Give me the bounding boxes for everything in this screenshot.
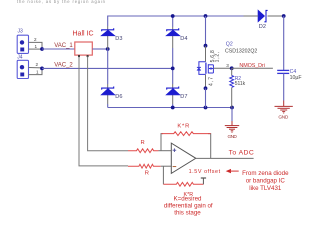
diode D3 — [101, 28, 115, 36]
svg-text:K=desired: K=desired — [173, 196, 202, 203]
svg-text:like TLV431: like TLV431 — [249, 185, 282, 192]
wire R to opamp minus — [161, 165, 172, 167]
svg-text:511k: 511k — [235, 81, 246, 87]
wire C4 to ground — [283, 73, 285, 100]
op-amp U1 — [171, 143, 196, 173]
wire VAC_1 — [42, 48, 75, 50]
resistor R minus input — [128, 164, 161, 168]
resistor R plus input — [128, 149, 158, 153]
transistor Q2 symbol — [197, 62, 214, 75]
wire top bus — [108, 15, 244, 17]
connector J4 — [17, 55, 39, 79]
wire J3 pin1 — [29, 48, 43, 50]
pin Q2 gate — [213, 67, 231, 69]
wire J4 pin1 to junction — [29, 68, 43, 74]
capacitor C4 — [277, 70, 289, 73]
svg-text:C4: C4 — [290, 69, 297, 75]
svg-text:2: 2 — [34, 37, 37, 42]
terminal 1.5V offset — [201, 177, 206, 179]
node Q2 drain pin — [204, 44, 208, 48]
svg-text:J3: J3 — [18, 29, 24, 35]
svg-text:D6: D6 — [115, 94, 122, 100]
svg-text:the noise, as by the region ag: the noise, as by the region again — [17, 0, 106, 4]
diode D2 — [258, 10, 268, 22]
wire offset terminal — [202, 178, 204, 184]
wire D2 anode lead — [244, 15, 259, 17]
wire R2 to bottom bus — [231, 88, 233, 108]
wire Hall IC output to bridge — [92, 48, 107, 50]
connector J3 — [17, 29, 37, 54]
wire right diode column — [172, 16, 174, 27]
svg-text:CSD13202Q2: CSD13202Q2 — [225, 48, 257, 54]
diode D6 — [101, 87, 115, 95]
node bottom bus at Q2 column — [204, 106, 208, 110]
svg-text:or bandgap IC: or bandgap IC — [246, 178, 286, 185]
svg-text:Hall IC: Hall IC — [73, 31, 94, 38]
svg-text:3: 3 — [226, 63, 229, 68]
node VAC_2 junction at J4 — [40, 67, 44, 71]
svg-text:1: 1 — [35, 44, 38, 49]
svg-text:4,7: 4,7 — [209, 77, 215, 86]
annotation arrow — [226, 169, 231, 173]
svg-text:10µF: 10µF — [290, 75, 302, 81]
svg-text:To ADC: To ADC — [229, 150, 254, 157]
resistor K*R offset — [163, 182, 203, 186]
pin Q2 drain — [205, 46, 207, 62]
svg-text:VAC_1: VAC_1 — [54, 43, 73, 49]
wire J4 pin2 — [29, 67, 43, 69]
node VAC_1 junction at J3 — [40, 47, 44, 51]
wire Hall leg left to opamp minus input — [79, 57, 128, 166]
wire top bus right of D2 — [268, 15, 284, 17]
svg-text:D7: D7 — [180, 94, 187, 100]
wire J3 pin2 to junction — [29, 42, 43, 49]
svg-text:this stage: this stage — [174, 210, 201, 217]
node VAC_2 at D4 column — [171, 67, 175, 71]
svg-text:Q2: Q2 — [226, 42, 233, 48]
node top bus right end — [282, 14, 286, 18]
wire Q2 source to bottom bus — [205, 88, 207, 107]
svg-text:VAC_2: VAC_2 — [54, 62, 73, 68]
wire feedback right vertical — [208, 134, 211, 159]
ground at bottom bus — [225, 121, 239, 132]
minus mark — [173, 166, 177, 168]
node bottom bus at R2/GND — [230, 106, 234, 110]
wire R to opamp plus — [158, 150, 171, 152]
plus mark — [173, 148, 177, 152]
svg-text:R: R — [145, 170, 149, 176]
svg-text:GND: GND — [278, 114, 289, 120]
resistor K*R feedback — [162, 132, 211, 136]
svg-text:D4: D4 — [180, 36, 187, 42]
svg-text:R: R — [141, 140, 145, 146]
node bottom bus at D7 column — [171, 106, 175, 110]
wire minus input down — [162, 166, 164, 184]
wire C4 column — [283, 16, 285, 70]
svg-text:From zena diode: From zena diode — [242, 170, 289, 177]
wire VAC_2 — [42, 67, 173, 69]
wire NMOS_Dri — [232, 67, 273, 69]
Hall IC leg pins — [78, 55, 80, 57]
svg-text:D2: D2 — [259, 24, 266, 30]
wire bottom bus — [108, 107, 232, 109]
svg-text:1,2,: 1,2, — [214, 52, 220, 63]
wire feedback left vertical — [161, 134, 163, 151]
node top bus at Q2 column — [204, 14, 208, 18]
svg-text:2: 2 — [36, 62, 39, 67]
wire gate to R2 — [231, 68, 233, 75]
svg-text:K*R: K*R — [177, 124, 189, 130]
wire left diode column — [107, 16, 109, 27]
svg-text:1.5V offset: 1.5V offset — [189, 169, 221, 175]
node top bus at D4 column — [171, 14, 175, 18]
resistor R2 — [230, 76, 234, 88]
svg-text:1: 1 — [36, 70, 39, 75]
svg-text:GND: GND — [228, 134, 238, 140]
wire bus to ground — [231, 108, 233, 122]
wire opamp output — [196, 157, 254, 159]
Hall IC box — [75, 42, 93, 55]
ground at C4 — [275, 101, 293, 114]
pin Q2 source — [205, 74, 207, 88]
wire Q2 drain column — [205, 16, 207, 46]
node Q2 source pin — [204, 86, 208, 90]
diode D4 — [166, 28, 180, 36]
svg-text:D3: D3 — [115, 36, 122, 42]
diode D7 — [166, 87, 180, 95]
wire Hall leg right to opamp plus input — [88, 57, 128, 151]
node VAC_1 at D3 column — [106, 47, 110, 51]
node gate junction — [230, 66, 234, 70]
svg-text:NMOS_Dri: NMOS_Dri — [239, 63, 264, 69]
